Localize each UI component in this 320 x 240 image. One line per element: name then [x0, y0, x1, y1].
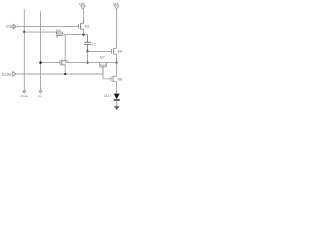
- wire M5/M1 interconnect vertical (x=65.2): [64, 35, 66, 61]
- wire SUM to gate of M8: [103, 74, 111, 79]
- svg-text:OUT: OUT: [104, 94, 113, 98]
- wire gate of M4 (y=51.4): [88, 50, 112, 52]
- transistor M2: [78, 20, 83, 29]
- node B junction dot (40.5,62.6): [39, 61, 42, 64]
- node junction dot (87.5,62.6): [86, 61, 88, 63]
- svg-text:M7: M7: [100, 56, 105, 60]
- label ind: [38, 94, 42, 98]
- port SUM: [2, 72, 12, 77]
- wire M1 source down (x=65.2): [64, 65, 66, 74]
- svg-text:n1: n1: [42, 28, 46, 32]
- diode D1: [114, 94, 120, 107]
- label Cc: [92, 42, 96, 46]
- svg-text:Cc: Cc: [92, 42, 96, 46]
- wire cap bottom to output net (x=87.5): [87, 51, 89, 62]
- net label n1: [42, 28, 46, 32]
- wire M5 drain to M2 source (y=34.6): [63, 34, 87, 36]
- label M2: [85, 25, 90, 29]
- svg-text:vdd!: vdd!: [79, 2, 85, 6]
- ground port under diode: [114, 106, 120, 110]
- wire rail of M5 (y=32.1): [24, 31, 62, 33]
- svg-text:ind: ind: [38, 94, 42, 98]
- wire M8 drain up (x=116.5): [116, 63, 118, 77]
- power vdd! symbol right: [114, 6, 119, 49]
- label Vbias: [20, 94, 28, 98]
- port SUM bracket: [13, 72, 16, 77]
- node cap bottom junction dot (87.5,51.4): [86, 50, 88, 52]
- wire CW net (y=26.6): [16, 26, 78, 28]
- svg-text:M1: M1: [64, 59, 69, 63]
- node M1 source junction dot (65.2,74): [64, 73, 66, 75]
- port CW: [6, 24, 13, 29]
- label M4: [118, 50, 123, 54]
- transistor M5: [56, 32, 63, 37]
- svg-text:M4: M4: [118, 50, 123, 54]
- svg-text:M8: M8: [118, 78, 123, 82]
- port ind triangle: [39, 91, 42, 93]
- svg-text:M5: M5: [56, 29, 61, 33]
- label M5: [56, 29, 61, 33]
- port Vbias triangle: [23, 91, 26, 93]
- label OUT: [104, 94, 113, 98]
- svg-text:SUM: SUM: [2, 72, 12, 77]
- svg-text:vdd!: vdd!: [113, 2, 119, 6]
- label M8: [118, 78, 123, 82]
- wire vertical B (x=40.5): [40, 11, 42, 91]
- port CW bracket: [13, 24, 16, 29]
- svg-text:CW: CW: [6, 24, 13, 29]
- transistor M1: [60, 60, 65, 66]
- label M1: [64, 59, 69, 63]
- label M7: [100, 56, 105, 60]
- wire second stage net (y=62.6): [65, 62, 116, 64]
- power vdd! symbol left: [81, 6, 86, 24]
- wire gate of M1 (y=62.6): [41, 62, 61, 64]
- label vdd! right: [113, 2, 119, 6]
- node A junction dot (24.3,31.9): [23, 31, 25, 33]
- wire M8 source down to diode (x=116.5): [116, 82, 118, 94]
- wire M4 source down (x=116.5): [116, 54, 118, 62]
- svg-text:Vbias: Vbias: [20, 94, 28, 98]
- transistor M8: [111, 76, 117, 82]
- transistor M7: [99, 63, 107, 74]
- capacitor Cc: [84, 35, 91, 52]
- wire vertical A (bias net x=24.3): [23, 9, 25, 91]
- wire SUM net (y=74): [16, 73, 103, 75]
- transistor M4: [112, 48, 117, 54]
- svg-text:M2: M2: [85, 25, 90, 29]
- wire M2 source down (x=83.5): [83, 29, 85, 34]
- node junction dot (116.5,62.6): [115, 61, 117, 63]
- label vdd! left: [79, 2, 85, 6]
- node M2 source junction dot (83.5,34.6): [82, 33, 84, 35]
